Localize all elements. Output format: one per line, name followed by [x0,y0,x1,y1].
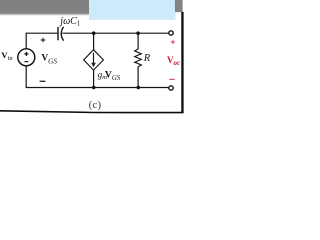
svg-text:R: R [143,53,151,64]
svg-text:(c): (c) [89,99,102,111]
